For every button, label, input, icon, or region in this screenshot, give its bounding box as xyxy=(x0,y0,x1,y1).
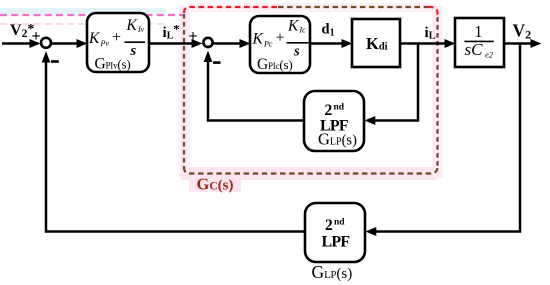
node summing junction 1 xyxy=(41,38,51,48)
svg-text:+: + xyxy=(189,28,198,45)
block Kdi xyxy=(352,19,400,67)
node dashed box Gc(s) top edge red part xyxy=(184,7,278,13)
svg-text:+: + xyxy=(276,30,285,47)
svg-text:Iv: Iv xyxy=(137,25,145,34)
wire outer feedback down from V2 node xyxy=(375,44,521,232)
svg-text:K: K xyxy=(126,17,138,34)
svg-text:1: 1 xyxy=(474,22,482,41)
node summing junction 2 xyxy=(203,38,212,47)
wire output V2 xyxy=(504,42,532,45)
node minus sign at summer 2 xyxy=(213,61,221,64)
wire outer LPF to summer1 xyxy=(46,62,305,232)
block inner 2nd LPF xyxy=(304,91,364,151)
node dashed box Gc(s) top-right corner red xyxy=(428,7,438,16)
svg-text:K: K xyxy=(88,30,100,47)
svg-text:s: s xyxy=(293,44,300,60)
wire pink dashed line top-left xyxy=(0,14,184,16)
svg-text:nd: nd xyxy=(334,218,345,228)
svg-text:2: 2 xyxy=(325,217,333,234)
svg-text:Pv: Pv xyxy=(100,39,110,48)
block 1/sCe2 xyxy=(455,18,504,67)
block outer 2nd LPF xyxy=(305,203,365,262)
block GPIc current PI controller xyxy=(250,16,310,73)
svg-text:LPF: LPF xyxy=(322,234,351,251)
wire Kdi to sCe2 with iL label xyxy=(400,42,446,45)
wire inner feedback down from iL node xyxy=(374,44,419,121)
wire GPIv to summer 2 with iL* label xyxy=(149,42,193,45)
node minus sign at summer 1 xyxy=(51,60,59,63)
svg-text:+: + xyxy=(112,29,121,46)
svg-text:nd: nd xyxy=(334,103,345,113)
wire inner LPF to summer2 xyxy=(208,62,304,121)
wire summer1 to GPIv xyxy=(52,42,78,45)
node dashed box Gc(s) left edge brown xyxy=(183,14,185,167)
svg-text:+: + xyxy=(32,28,41,45)
svg-text:Ic: Ic xyxy=(299,26,307,35)
wire GPIc to Kdi with d1 label xyxy=(310,42,343,45)
svg-text:K: K xyxy=(287,17,299,34)
svg-text:K: K xyxy=(252,31,264,48)
wire summer2 to GPIc xyxy=(214,42,241,45)
node dashed box Gc(s) top edge brown part xyxy=(278,6,428,8)
block GPIv voltage PI controller xyxy=(87,13,149,72)
svg-text:sC: sC xyxy=(465,40,484,59)
svg-text:e2: e2 xyxy=(485,49,494,59)
node dashed box Gc(s) right edge brown xyxy=(436,17,438,167)
wire input arrow V2* xyxy=(2,42,31,45)
svg-text:2: 2 xyxy=(325,102,333,119)
node dashed box Gc(s) bottom edge brown xyxy=(184,167,438,174)
svg-text:Pc: Pc xyxy=(263,39,273,48)
svg-text:s: s xyxy=(130,43,137,59)
